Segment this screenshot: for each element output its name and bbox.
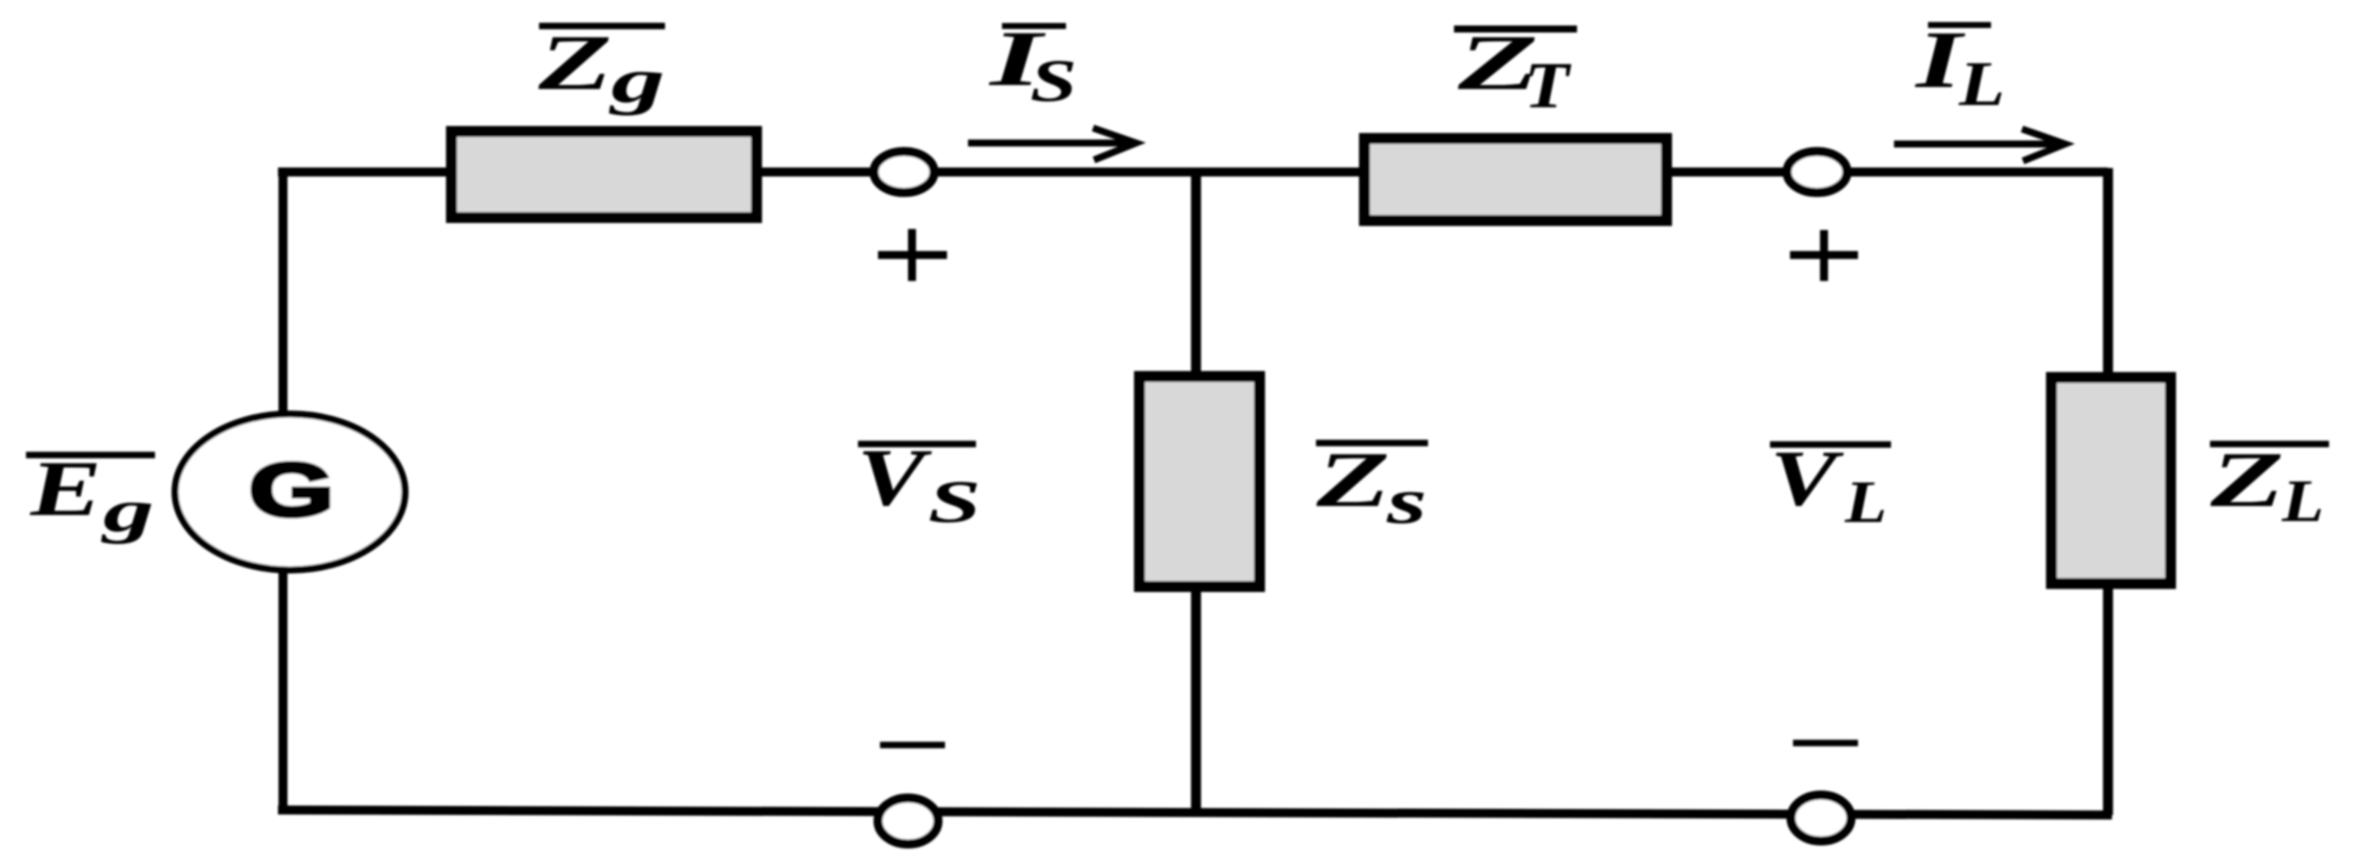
svg-text:L: L <box>1844 469 1887 535</box>
label ZT overbar <box>1454 26 1577 33</box>
terminal node upper-right <box>1787 152 1847 193</box>
svg-text:g: g <box>608 46 665 116</box>
plus sign VS <box>878 251 947 259</box>
svg-text:V: V <box>857 432 933 523</box>
wire right vertical <box>2103 168 2113 815</box>
minus sign VL <box>1793 740 1858 747</box>
svg-text:s: s <box>1385 465 1427 538</box>
label VL overbar <box>1770 441 1891 448</box>
svg-text:L: L <box>2281 468 2324 534</box>
svg-text:S: S <box>928 469 981 535</box>
label Zg overbar <box>539 23 665 30</box>
svg-text:L: L <box>1958 49 2005 119</box>
label ZL <box>2201 437 2293 524</box>
label ZT <box>1448 20 1548 107</box>
label VS overbar <box>858 441 976 448</box>
label Zs <box>1307 437 1399 524</box>
label IL overbar <box>1928 22 1991 28</box>
label Zg <box>529 20 621 107</box>
label Eg <box>24 446 109 533</box>
resistor box Zs (shunt) <box>1140 377 1260 587</box>
arrow IL <box>1894 141 2060 148</box>
arrow IS <box>968 140 1130 147</box>
svg-text:S: S <box>1030 48 1077 114</box>
svg-text:g: g <box>100 478 154 544</box>
label IS overbar <box>1002 23 1066 29</box>
resistor box Zg <box>452 132 757 218</box>
terminal node upper-left <box>874 152 934 193</box>
minus sign VS <box>880 742 945 749</box>
svg-text:T: T <box>1524 49 1572 122</box>
plus sign VL <box>1790 251 1858 259</box>
wire top horizontal <box>278 168 2108 177</box>
wire left vertical <box>279 168 288 813</box>
label ZL overbar <box>2210 441 2329 448</box>
svg-text:V: V <box>1770 436 1845 523</box>
label Eg overbar <box>26 452 155 459</box>
terminal node lower-left <box>878 798 938 844</box>
generator source G (circle) <box>175 414 405 570</box>
resistor box ZL (load) <box>2052 378 2171 584</box>
wire bottom horizontal <box>278 810 2112 815</box>
label Zs overbar <box>1316 440 1428 447</box>
wire shunt vertical (node S) <box>1191 172 1201 815</box>
resistor box ZT <box>1365 139 1667 221</box>
svg-text:G: G <box>249 448 334 532</box>
terminal node lower-right <box>1791 795 1851 841</box>
